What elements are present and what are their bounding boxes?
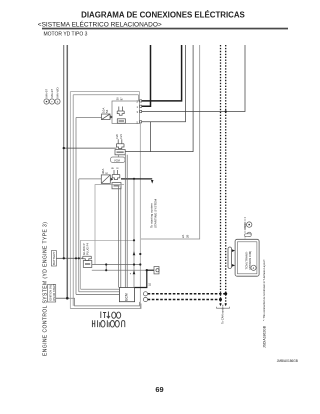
svg-text:2B: 2B — [186, 235, 190, 238]
TCM ref circle 2 — [247, 232, 251, 236]
CAN arrow down 1 — [219, 304, 222, 307]
wire battery bus — [63, 45, 65, 258]
ECM box — [119, 288, 134, 302]
relay R1 box — [112, 101, 140, 123]
svg-text:MA-97: MA-97 — [45, 89, 49, 98]
wire ignition route bottom — [67, 298, 139, 306]
wire relay2 to arrow — [121, 178, 152, 180]
TCM inner box — [237, 242, 257, 274]
bottom connector labels row1 — [101, 312, 121, 319]
svg-text:S: S — [115, 167, 119, 169]
wire battery row to glow plug — [64, 257, 83, 259]
junction on wire 111 at dashed — [225, 110, 227, 112]
svg-text:MA-WD: MA-WD — [56, 87, 60, 97]
junction battery row — [63, 257, 65, 259]
header rule — [42, 28, 288, 30]
CAN arrow down 2 — [224, 304, 227, 307]
wire ignition label — [56, 297, 68, 299]
svg-text:54: 54 — [105, 109, 109, 113]
svg-text:ECM: ECM — [125, 293, 129, 301]
box A left edge — [69, 92, 71, 309]
TCM inner circle — [251, 265, 256, 270]
TCM outer box — [235, 239, 259, 276]
svg-text:JSDIA1862GB: JSDIA1862GB — [263, 325, 267, 348]
fuse F2 — [101, 175, 113, 184]
junction bus-component2 — [63, 147, 65, 149]
svg-text:ON OR START: ON OR START — [53, 284, 56, 301]
svg-text:<SISTEMA ELÉCTRICO RELACIONADO: <SISTEMA ELÉCTRICO RELACIONADO> — [38, 19, 162, 28]
ref circle trio — [44, 99, 60, 104]
svg-text:*: This connection is not show: *: This connection is not shown in "Harn… — [262, 259, 266, 321]
CAN dashed horizontal L — [148, 299, 221, 301]
svg-text:B: B — [111, 167, 115, 169]
wire relay2 down 4 — [126, 155, 128, 288]
wire battery label — [56, 257, 64, 259]
CAN connector circles — [143, 292, 147, 296]
svg-text:30: 30 — [116, 97, 120, 100]
wire fuse1 feed horizontal — [76, 117, 102, 119]
TCM dotted drop — [244, 217, 246, 239]
svg-text:To CAN system: To CAN system — [221, 304, 225, 324]
svg-text:±: ± — [57, 100, 59, 104]
svg-text:3: 3 — [137, 110, 139, 114]
wire relay2 down 1 — [118, 187, 120, 288]
box B right edge upper — [138, 95, 140, 101]
wire relay2 down 2 — [120, 187, 122, 288]
svg-text:DIAGRAMA DE CONEXIONES ELÉCTRI: DIAGRAMA DE CONEXIONES ELÉCTRICAS — [81, 11, 245, 20]
thick feed wire 1 from top — [142, 45, 151, 106]
wires into ECM from left — [76, 289, 119, 294]
relay R2 symbol — [112, 170, 121, 189]
fuse F1 — [102, 114, 114, 120]
thick wire connector to ECM right — [135, 270, 154, 287]
svg-text:VCM: VCM — [114, 158, 120, 162]
CAN dashed horizontal H — [148, 293, 226, 295]
svg-text:STARTING SYSTEM: STARTING SYSTEM — [153, 199, 157, 228]
svg-text:+: + — [51, 100, 53, 104]
CAN dashed vertical 1 — [220, 45, 222, 304]
svg-text:F20: F20 — [115, 134, 119, 139]
svg-text:69: 69 — [155, 385, 163, 394]
svg-text:F21: F21 — [119, 134, 123, 139]
TCM ref circle 1 — [247, 222, 252, 227]
wire from top to relay1 pin3 long — [142, 45, 246, 112]
wire branch vertical B — [150, 122, 152, 152]
TCM tab — [245, 234, 252, 237]
relay R1 symbol — [117, 107, 125, 124]
junction ignition — [66, 297, 69, 300]
svg-text:5: 5 — [137, 121, 139, 125]
thick feed wire 2 from top — [142, 45, 182, 101]
CAN junction dots — [224, 292, 227, 295]
svg-text:E: E — [105, 172, 109, 174]
svg-text:d: d — [253, 266, 255, 270]
wire fuse2 feed vertical — [78, 179, 80, 292]
wire grey long from top — [141, 45, 200, 239]
CAN dashed vertical 2 — [225, 45, 227, 304]
wire starred branch — [133, 179, 135, 288]
CAN bracket — [217, 307, 230, 308]
junction dots ecm wires — [105, 263, 107, 265]
wire from top to relay1 pin4 — [142, 45, 186, 122]
junction relay2 wire — [133, 178, 135, 180]
wire relay2 down 3 — [124, 155, 126, 288]
box A right edge lower — [139, 123, 141, 308]
box B left edge — [72, 95, 74, 306]
svg-text:32: 32 — [148, 283, 151, 287]
box B top edge — [73, 94, 138, 96]
relay R1 pin bumps — [140, 100, 142, 123]
component C2 label box — [111, 155, 126, 163]
wire ignition bus (thick) — [66, 45, 68, 298]
branch up arrow 1 — [133, 251, 136, 255]
relay R1 pin texts — [137, 100, 139, 125]
svg-text:2A: 2A — [181, 235, 185, 238]
box A bottom edge — [70, 304, 141, 309]
svg-text:MA-97: MA-97 — [50, 89, 54, 98]
svg-text:BATTERY: BATTERY — [52, 251, 56, 265]
wire fuse1 feed vertical — [75, 118, 77, 295]
battery label box — [51, 251, 56, 266]
ignition label box — [48, 285, 56, 303]
bottom connector labels row2 — [92, 320, 124, 327]
TCM arrows — [232, 249, 235, 252]
inner box P (relay2/glow group) — [95, 185, 124, 265]
wire from top to component2 — [125, 45, 193, 152]
connector at right of ECM — [154, 267, 159, 274]
svg-text:JMBIA0186GB: JMBIA0186GB — [277, 359, 298, 363]
wire fuse2 feed horizontal — [79, 178, 102, 180]
svg-text:*: * — [130, 273, 132, 277]
glow area box — [81, 240, 134, 289]
svg-text:MOTOR YD TIPO 3: MOTOR YD TIPO 3 — [44, 32, 88, 38]
wire glow out right — [92, 265, 147, 271]
TCM left connector oval — [228, 247, 232, 269]
svg-text:F502: F502 — [243, 222, 247, 229]
svg-text:PLUG F4: PLUG F4 — [85, 243, 89, 255]
svg-text:87: 87 — [120, 97, 124, 100]
wire bus to component2 — [64, 147, 117, 149]
branch up arrow 2 — [133, 270, 136, 274]
box A top edge — [70, 91, 139, 93]
arrow down starter — [151, 180, 154, 184]
wires to ECM from components above — [119, 155, 135, 288]
box A right edge upper — [139, 92, 141, 101]
component C2 (pump) — [115, 139, 125, 155]
svg-text:1: 1 — [137, 105, 139, 109]
